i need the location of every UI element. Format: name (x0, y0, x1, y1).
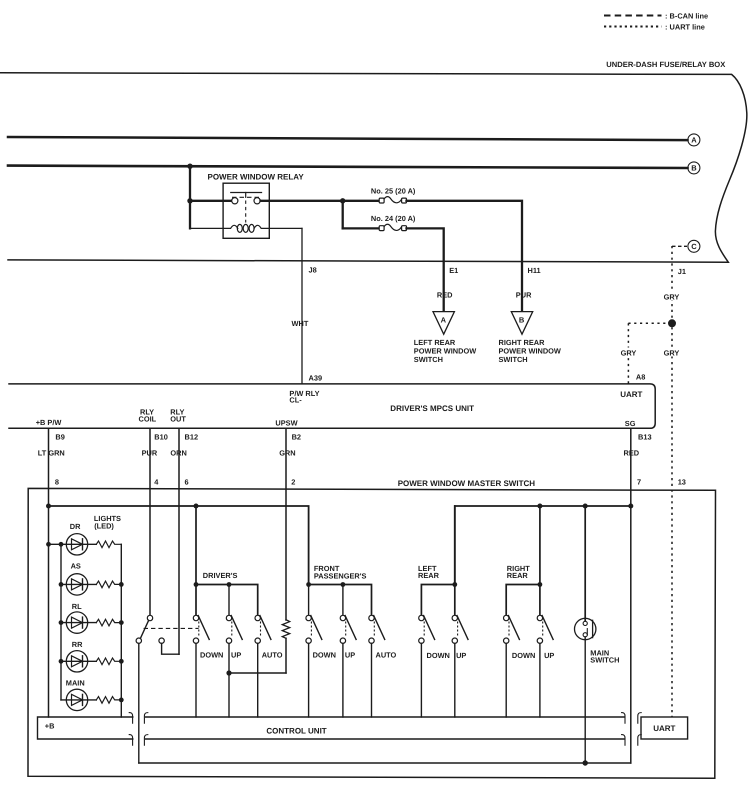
driver's DOWN switch (193, 615, 198, 620)
FP UP switch (340, 615, 345, 620)
svg-text:A8: A8 (636, 373, 645, 382)
svg-text:UP: UP (231, 651, 241, 660)
wire fuse25 to H11 (407, 201, 523, 311)
svg-text:RL: RL (72, 602, 82, 611)
svg-text:OUT: OUT (170, 414, 186, 423)
node B (688, 162, 700, 174)
svg-text:RED: RED (437, 291, 453, 300)
wire changeover common down (138, 643, 140, 763)
wire +B rail (left segment) (49, 506, 309, 585)
FP DOWN switch (306, 615, 311, 620)
RR DOWN switch (504, 615, 509, 620)
main changeover switch contacts (147, 615, 152, 620)
junction relay contact feed (187, 198, 192, 203)
svg-text:SWITCH: SWITCH (499, 355, 528, 364)
RR UP switch (537, 615, 542, 620)
svg-text:+B: +B (45, 722, 55, 731)
wire fuse24 branch vertical (342, 201, 344, 229)
relay coil L1 (190, 225, 302, 228)
resistor RR (96, 658, 121, 665)
LR UP switch (452, 615, 457, 620)
wire color GRY (main) (662, 348, 682, 357)
svg-text:DRIVER'S: DRIVER'S (203, 571, 238, 580)
wire B10 PUR (149, 428, 151, 615)
fuse No.25 (20A) (343, 200, 380, 202)
under-dash fuse/relay box outline (0, 73, 747, 262)
svg-text:A: A (441, 316, 447, 325)
wire color GRY (upper) (662, 291, 682, 300)
+B box (38, 717, 133, 739)
wire A-line (8, 137, 688, 140)
legend B-CAN dashed line (604, 15, 662, 17)
wire B9 LT GRN (48, 428, 50, 717)
wire driver's feed (195, 506, 197, 615)
svg-text:PUR: PUR (516, 291, 532, 300)
svg-text:PUR: PUR (142, 449, 158, 458)
wire bottom bus (139, 762, 631, 764)
svg-text:AS: AS (71, 562, 81, 571)
relay contact circles (232, 198, 238, 204)
svg-text:6: 6 (185, 477, 189, 486)
svg-text:LT GRN: LT GRN (38, 449, 65, 458)
wire dotted branch to A8 (628, 322, 668, 324)
svg-text:DOWN: DOWN (200, 651, 223, 660)
svg-text:GRY: GRY (664, 292, 680, 301)
main switch S1 (584, 506, 586, 621)
wire fuse24 to E1 (407, 228, 444, 311)
svg-text:B10: B10 (154, 433, 168, 442)
junction main switch / bottom bus (583, 760, 588, 765)
wire relay coil to J8 (301, 228, 303, 384)
svg-text:: UART line: : UART line (665, 22, 705, 31)
svg-text:REAR: REAR (507, 571, 529, 580)
svg-text:DR: DR (70, 522, 81, 531)
svg-text:GRY: GRY (621, 349, 637, 358)
svg-text:B13: B13 (638, 433, 652, 442)
driver's UP switch (226, 615, 231, 620)
wire UPSW lower (285, 638, 287, 673)
wire LR feed (454, 506, 456, 615)
svg-text:A: A (691, 136, 697, 145)
svg-text:B12: B12 (185, 433, 199, 442)
wire FP bus (309, 585, 372, 616)
connector bracket pair control/UART top (622, 713, 625, 724)
junction rail/B13 (628, 504, 633, 509)
svg-text:UP: UP (345, 651, 355, 660)
svg-text:No. 24 (20 A): No. 24 (20 A) (371, 214, 416, 223)
svg-text:SWITCH: SWITCH (414, 355, 443, 364)
control unit box (146, 716, 624, 718)
svg-text:GRY: GRY (664, 349, 680, 358)
wire UPSW to UP/AUTO (229, 672, 286, 674)
junction rail/main-switch feed (583, 504, 588, 509)
junction rail/right-rear feed (537, 504, 542, 509)
node A (688, 134, 700, 146)
UART box (641, 717, 688, 739)
svg-text:UP: UP (544, 651, 554, 660)
FP AUTO switch (369, 615, 374, 620)
wire LR bus (421, 585, 454, 616)
svg-text:CONTROL UNIT: CONTROL UNIT (266, 727, 326, 736)
svg-text:+B P/W: +B P/W (36, 418, 62, 427)
connector triangle A (to left rear switch) (433, 312, 454, 335)
svg-text:: B-CAN line: : B-CAN line (665, 11, 708, 20)
fuse No.24 (20A) (343, 227, 380, 229)
svg-text:MAIN: MAIN (66, 678, 85, 687)
node C (688, 240, 700, 252)
svg-text:GRN: GRN (279, 449, 295, 458)
svg-text:7: 7 (637, 477, 641, 486)
svg-text:DOWN: DOWN (512, 651, 535, 660)
connector triangle B (to right rear switch) (511, 312, 532, 335)
svg-text:B2: B2 (292, 433, 301, 442)
wire dashed B-CAN stub to node C (672, 245, 687, 247)
svg-text:C: C (691, 242, 697, 251)
connector bracket pair control/UART bottom (622, 735, 625, 746)
junction on B-line (187, 164, 192, 169)
connector bracket pair +B/control top (129, 713, 132, 724)
svg-text:DRIVER'S MPCS UNIT: DRIVER'S MPCS UNIT (390, 404, 474, 413)
svg-text:POWER WINDOW MASTER SWITCH: POWER WINDOW MASTER SWITCH (398, 479, 536, 488)
resistor RL (96, 619, 121, 626)
junction rail/driver feed (194, 504, 199, 509)
resistor DR (96, 541, 121, 548)
LED return rail right (120, 544, 122, 717)
driver's AUTO switch (255, 615, 260, 620)
svg-text:B9: B9 (55, 433, 64, 442)
resistor AS (96, 581, 121, 588)
svg-text:UART: UART (620, 390, 642, 399)
svg-text:ORN: ORN (170, 449, 186, 458)
svg-text:A39: A39 (309, 373, 323, 382)
junction rail/pin8 (46, 504, 51, 509)
LR DOWN switch (419, 615, 424, 620)
power window relay U1 box (223, 183, 269, 238)
LED feed rail inner (60, 544, 62, 700)
svg-text:J1: J1 (678, 267, 686, 276)
wire B-line (8, 166, 688, 168)
wire to relay contact (190, 200, 231, 202)
svg-text:E1: E1 (449, 266, 458, 275)
main changeover blade (140, 620, 148, 638)
driver's MPCS unit box (9, 384, 655, 428)
svg-text:J8: J8 (309, 266, 317, 275)
junction fuse branch (340, 198, 345, 203)
wire relay feed vertical (189, 166, 191, 228)
svg-text:DOWN: DOWN (427, 651, 450, 660)
svg-text:REAR: REAR (418, 571, 440, 580)
svg-text:B: B (691, 164, 697, 173)
wire relay contact output (261, 200, 344, 202)
svg-text:UART: UART (653, 724, 675, 733)
svg-text:(LED): (LED) (94, 521, 114, 530)
wire RR feed (539, 506, 541, 615)
svg-text:DOWN: DOWN (313, 651, 336, 660)
svg-text:CL-: CL- (289, 396, 302, 405)
svg-text:AUTO: AUTO (262, 651, 283, 660)
svg-text:PASSENGER'S: PASSENGER'S (314, 571, 367, 580)
wire B12 ORN (178, 428, 180, 654)
wire rail (right segment) (455, 506, 631, 585)
connector bracket pair +B/control bottom (129, 735, 132, 746)
wire RR bus (506, 585, 540, 616)
wire B2 GRN (285, 428, 287, 620)
resistor MAIN (96, 697, 121, 704)
relay armature bar (231, 192, 262, 194)
junction pin8 rail / DR row (46, 542, 51, 547)
svg-text:H11: H11 (528, 266, 541, 275)
svg-text:COIL: COIL (139, 414, 157, 423)
wire pin6 to changeover NC (162, 643, 179, 654)
relay actuator dashed link (245, 201, 247, 223)
wire B13 RED (630, 428, 632, 763)
svg-text:2: 2 (291, 477, 295, 486)
svg-text:AUTO: AUTO (376, 651, 397, 660)
svg-text:RED: RED (624, 449, 640, 458)
svg-text:POWER WINDOW RELAY: POWER WINDOW RELAY (208, 173, 305, 182)
UPSW resistor R1 (282, 620, 289, 639)
svg-text:RR: RR (72, 640, 83, 649)
svg-text:B: B (519, 316, 525, 325)
legend UART dotted line (604, 26, 662, 28)
mechanical dashed link to driver's switches (144, 627, 199, 629)
svg-text:4: 4 (154, 477, 159, 486)
svg-text:13: 13 (678, 477, 686, 486)
svg-text:8: 8 (55, 477, 59, 486)
svg-text:UPSW: UPSW (275, 418, 297, 427)
power window master switch box (28, 488, 716, 778)
svg-text:WHT: WHT (292, 319, 309, 328)
svg-text:No. 25 (20 A): No. 25 (20 A) (371, 186, 416, 195)
junction UART/B-CAN node (668, 319, 676, 327)
svg-text:SWITCH: SWITCH (590, 656, 619, 665)
wire color GRY (branch) (619, 348, 639, 357)
wire UART dotted J1 vertical (671, 246, 673, 718)
svg-text:SG: SG (625, 419, 636, 428)
wire driver's bus (196, 585, 258, 616)
svg-text:UP: UP (456, 651, 466, 660)
svg-text:UNDER-DASH FUSE/RELAY BOX: UNDER-DASH FUSE/RELAY BOX (606, 60, 725, 69)
